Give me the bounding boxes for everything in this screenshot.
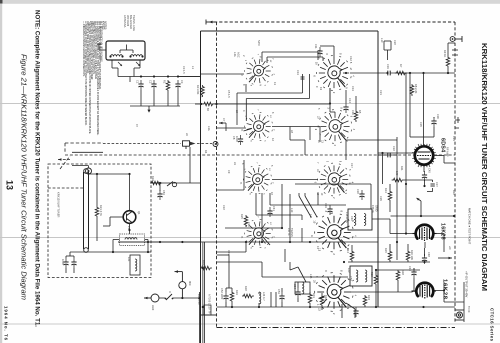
label halo around S2D [317, 108, 355, 143]
capacitor C55 [353, 307, 358, 317]
svg-text:AGC: AGC [237, 52, 241, 58]
wire stair bus lower [217, 193, 319, 252]
resistor R9 vertical at border [446, 56, 450, 68]
svg-text:KRK118/KRK120 VHF/UHF TUNER: KRK118/KRK120 VHF/UHF TUNER CIRCUIT SCHE… [480, 43, 489, 291]
svg-text:R33: R33 [235, 290, 239, 295]
coil L20b [365, 270, 367, 282]
resistor R31 [308, 293, 312, 305]
junction dots bottom bus [231, 306, 425, 308]
arrow into wafer [219, 122, 226, 131]
junction dots mid [245, 241, 311, 243]
wire TP bus [159, 297, 201, 299]
capacitor C8 [238, 135, 243, 145]
junction dot TP bus [181, 297, 183, 299]
label halo around S2B [315, 56, 355, 91]
chassis dashed border right [454, 22, 456, 322]
switch S2F wafer [314, 161, 353, 199]
wire stair bus upper [237, 52, 323, 125]
svg-text:C20: C20 [393, 40, 397, 45]
wire vertical rail 2 [409, 73, 411, 137]
wire oscillator link column [346, 137, 397, 260]
svg-text:MIX: MIX [188, 281, 192, 286]
wire osc wafer drop [262, 127, 320, 243]
svg-text:R34: R34 [367, 295, 371, 300]
wire osc grid leads [398, 268, 414, 292]
resistor R7 [395, 71, 407, 75]
resistor R19 [374, 274, 378, 286]
divider crossing ticks at border [455, 117, 460, 128]
wire C52 riser [217, 46, 335, 285]
wire T1 right leg down [134, 60, 140, 77]
corner mark [0, 0, 3, 4]
svg-text:C22: C22 [392, 146, 396, 151]
svg-text:+IF-OUTPUT 35-45V: +IF-OUTPUT 35-45V [465, 271, 469, 297]
UHF preselector cavity line [84, 169, 89, 253]
trimmer arrows under T1 [118, 62, 140, 66]
antenna jack arrow [58, 158, 70, 161]
svg-text:C1: C1 [136, 80, 140, 84]
wire interstage row S2B down [330, 88, 356, 112]
UHF oscillator transistor Q1 [123, 211, 136, 224]
svg-text:C13: C13 [296, 70, 300, 75]
wire Q1 base left [103, 217, 123, 226]
capacitor C3 [175, 80, 180, 90]
label halo around S2A [242, 55, 277, 86]
capacitor C11 [317, 47, 322, 57]
wire slant feeds into L18 [299, 193, 317, 217]
bus junction dots [140, 75, 179, 77]
resistor R21 [95, 206, 99, 218]
svg-text:1ST IF: 1ST IF [371, 205, 375, 213]
wire S2I tail [263, 237, 270, 245]
coil L24 [259, 292, 261, 304]
T1 primary coil right [131, 55, 143, 57]
page crease line 1 [0, 103, 500, 105]
capacitor C37 [431, 184, 435, 186]
junction dot osc drop [281, 227, 283, 229]
resistor R14 [350, 250, 354, 262]
coil L21 [135, 259, 137, 271]
switch S2I IF wafer [241, 216, 275, 249]
svg-text:L20: L20 [347, 268, 351, 273]
svg-text:L18 LINK: L18 LINK [345, 212, 349, 223]
svg-text:L10: L10 [380, 38, 384, 43]
coil L18a [354, 214, 356, 226]
wire osc section rows [217, 262, 421, 307]
svg-text:L24 4.7: L24 4.7 [262, 292, 266, 301]
svg-text:L4A: L4A [233, 52, 237, 57]
wire 6DS4 cathode down [391, 167, 456, 216]
switch S2D oscillator wafer [314, 107, 355, 146]
coil L20a [356, 270, 358, 282]
wire stabilizer leads [103, 223, 151, 252]
svg-text:R4: R4 [204, 150, 208, 154]
svg-text:6DS4: 6DS4 [440, 138, 446, 152]
B+ lead vertical pair [204, 242, 206, 343]
svg-text:R3 3.9K: R3 3.9K [196, 85, 200, 95]
capacitor C54 [295, 288, 300, 298]
capacitor C30 [359, 190, 364, 200]
svg-text:C53: C53 [277, 289, 281, 294]
svg-text:100: 100 [395, 171, 399, 176]
svg-text:C36: C36 [436, 114, 440, 119]
resistor R16 [406, 250, 410, 262]
wire heater row [424, 117, 435, 137]
small box L23 [295, 282, 310, 294]
wire T1 left leg down [112, 60, 118, 77]
junction dots lower-left [147, 241, 184, 243]
capacitor C63 [157, 190, 162, 200]
wire 6DS4 right to border [433, 156, 455, 164]
svg-text:R16 10K: R16 10K [410, 250, 414, 260]
wire interstage step row [237, 88, 330, 104]
capacitor C1 [138, 80, 143, 90]
UHF tuner dashed box [48, 164, 151, 278]
coil L18b [364, 214, 366, 226]
switch S2A RF input wafer [241, 54, 275, 87]
wire R13 leads [389, 184, 391, 212]
svg-text:L21: L21 [127, 257, 131, 262]
T1 stub left [97, 44, 106, 50]
svg-text:C48: C48 [427, 252, 431, 257]
svg-text:L3A: L3A [207, 126, 211, 131]
terminal bushing at box edge [213, 142, 218, 147]
VHF antenna jack J1 [72, 152, 103, 174]
capacitor C2 [151, 80, 156, 90]
capacitor C52 [223, 292, 228, 302]
svg-text:C24: C24 [227, 250, 231, 255]
svg-text:C21: C21 [379, 90, 383, 95]
capacitor C61 [63, 258, 68, 268]
svg-text:TRANS: TRANS [290, 228, 294, 237]
wire grid bias row [378, 154, 397, 156]
ground stub [147, 106, 150, 113]
wire exits below dash-dot [200, 292, 277, 343]
tick marks on right border top [452, 50, 458, 55]
svg-text:TO IF: TO IF [467, 306, 471, 313]
svg-text:C41: C41 [272, 206, 276, 211]
svg-text:C3 1.5: C3 1.5 [182, 66, 186, 74]
small box bottom left rail [204, 305, 211, 315]
tube pin tick ring V1 [412, 144, 435, 167]
contact arm C wafer [244, 129, 253, 132]
svg-text:R9 1K: R9 1K [443, 50, 447, 57]
T1 terminal dots [109, 55, 143, 57]
svg-text:C35: C35 [419, 122, 423, 127]
svg-text:R1: R1 [163, 80, 167, 84]
svg-text:C37: C37 [435, 182, 439, 187]
svg-text:C16: C16 [351, 110, 355, 115]
wire lower-left links [118, 241, 201, 243]
capacitor C19 [384, 71, 394, 76]
IF amp tube 16K28 V2 [413, 225, 437, 242]
wire osc tube plate right [435, 282, 465, 322]
resistor R8 on rail [410, 84, 414, 96]
chassis dashed border top [214, 21, 455, 23]
resistor R3 vertical [201, 85, 205, 97]
wire row into box left [195, 103, 237, 105]
VHF tuner solid box right [377, 31, 379, 307]
svg-text:C12: C12 [349, 56, 353, 61]
VHF tuner solid box top [201, 30, 379, 32]
IF cable connector [455, 310, 464, 320]
wire bottom bus [217, 306, 456, 308]
svg-text:C10: C10 [222, 205, 226, 210]
chassis dashed border left [216, 22, 218, 328]
junction dots scatter [96, 72, 445, 308]
switch S2G mixer grid wafer [310, 211, 357, 256]
switch S2H oscillator wafer [310, 270, 357, 315]
svg-text:NOTE: Complete Alignment Notes: NOTE: Complete Alignment Notes for the K… [34, 10, 41, 327]
wire slant feeds into L23 [290, 262, 306, 282]
svg-text:C14: C14 [348, 98, 352, 103]
junction dots bias row [420, 215, 455, 217]
svg-text:R5: R5 [358, 110, 362, 114]
svg-text:+IF: +IF [448, 246, 452, 250]
capacitor C33 [327, 205, 332, 215]
svg-text:1000: 1000 [235, 136, 239, 142]
resistor R25 [244, 215, 248, 227]
wire UHF top link [89, 174, 130, 241]
resistor R33 [230, 291, 234, 303]
svg-text:R15: R15 [384, 248, 388, 253]
VHF/UHF dashed divider line [65, 154, 455, 156]
coil inside L23 [302, 282, 304, 294]
resistor R13 [388, 190, 392, 202]
oscillator tube 16K28 V3 [412, 283, 437, 300]
scanner top edge strip [0, 0, 500, 4]
svg-text:C17: C17 [350, 163, 354, 168]
antenna feed dashed link [103, 143, 212, 145]
capacitor C13 [301, 77, 305, 79]
label halo around S2F [316, 162, 354, 195]
contact arm [167, 182, 177, 187]
wire L18 to 16K28 grid [372, 219, 414, 234]
wire 16K28 plate right [425, 234, 444, 253]
wire 6DS4 grid left [378, 153, 415, 184]
capacitor C45 [422, 171, 427, 181]
label column mid-left [204, 90, 456, 255]
tube pin ticks extra [418, 144, 430, 167]
svg-text:C50: C50 [349, 276, 353, 281]
svg-text:C29: C29 [379, 196, 383, 201]
svg-text:C33: C33 [324, 203, 328, 208]
T1 inner link [120, 45, 133, 54]
capacitor C36 [431, 117, 436, 127]
B+ rail gray [202, 242, 204, 343]
antenna bus wire [118, 76, 201, 78]
page crease line 2 [0, 237, 500, 239]
RF amp tube 6DS4 V1 [414, 144, 434, 167]
wire R9 leads [448, 43, 455, 73]
svg-text:C13: C13 [351, 86, 355, 91]
svg-text:R21 4.7K: R21 4.7K [99, 205, 103, 216]
capacitor C62 [71, 258, 76, 268]
svg-text:CTC16 Series: CTC16 Series [490, 308, 495, 342]
junction dots RF row [409, 72, 449, 74]
UHF output link wire to VHF box [151, 183, 201, 191]
VHF tuner solid box left [200, 31, 202, 343]
svg-text:NPO: NPO [257, 40, 261, 46]
resistor R32 [320, 295, 324, 307]
capacitor C53 [279, 292, 284, 302]
chassis dash-dot border bottom [217, 327, 456, 329]
wire osc slant [346, 303, 355, 318]
resistor R1 [166, 80, 170, 92]
svg-text:13: 13 [5, 180, 15, 190]
svg-text:KRK120 UHF TUNER: KRK120 UHF TUNER [57, 192, 61, 217]
page crease line 3 [0, 323, 500, 325]
svg-text:UHF: UHF [151, 305, 155, 311]
resistor R2b [203, 102, 215, 106]
antenna terminal dashed box [60, 143, 103, 169]
notes list block (rotated tiny text) [82, 21, 107, 136]
svg-text:R25: R25 [240, 214, 244, 219]
tube2 osc coil box [350, 266, 372, 286]
wire plug drop [189, 147, 191, 183]
svg-text:L16: L16 [309, 274, 313, 279]
capacitor C14 [343, 103, 348, 113]
wire C52 R33 top [226, 285, 232, 307]
wire RF bus row [178, 73, 455, 77]
resistor R10 [392, 178, 404, 182]
svg-text:C11: C11 [314, 44, 318, 49]
wire L18 feed vertical [370, 184, 372, 209]
svg-text:R11: R11 [400, 166, 404, 171]
switch S2E wafer [240, 162, 274, 195]
svg-text:C19: C19 [386, 64, 390, 69]
switch contact S1 [165, 292, 174, 301]
resistor R5 [354, 110, 358, 122]
svg-text:C30: C30 [356, 189, 360, 194]
svg-text:C7: C7 [222, 118, 226, 122]
svg-text:C9: C9 [227, 170, 231, 174]
switch S2B RF interstage wafer [312, 53, 354, 94]
svg-text:C49: C49 [408, 266, 412, 271]
mixer stabilizer dotted box [120, 234, 145, 246]
svg-text:R18: R18 [401, 270, 405, 275]
IF output arrow [438, 257, 452, 260]
svg-text:C63: C63 [162, 190, 166, 195]
switch S2C mixer wafer [241, 109, 275, 142]
coil shield box L18 [348, 209, 372, 230]
test point TP2 circle [144, 294, 159, 302]
svg-text:L13: L13 [290, 208, 294, 213]
svg-text:Figure 21—KRK118/KRK120 VHF/UH: Figure 21—KRK118/KRK120 VHF/UHF Tuner Ci… [20, 54, 29, 300]
svg-text:RF AMP: RF AMP [446, 147, 450, 157]
svg-text:R13: R13 [384, 188, 388, 193]
label halo around S2C [242, 110, 275, 141]
svg-text:R30: R30 [244, 286, 248, 291]
lower bus wire [130, 77, 180, 107]
svg-text:16K28: 16K28 [442, 279, 448, 300]
svg-text:C23: C23 [452, 136, 456, 141]
capacitor C48 [422, 254, 427, 264]
svg-text:R8 2.2K: R8 2.2K [414, 84, 418, 94]
stabilizer coil [125, 238, 137, 240]
svg-text:R31: R31 [312, 293, 316, 298]
svg-text:C52 1000: C52 1000 [220, 288, 224, 300]
test point TP1 circle [175, 270, 186, 298]
antenna plug P1 [183, 141, 196, 149]
T1 primary coil left [111, 55, 123, 57]
UHF box inner dashed partition [48, 187, 84, 189]
svg-text:C45: C45 [428, 168, 432, 173]
svg-text:Q1: Q1 [137, 211, 141, 215]
wire vertical B+ rail 1 [405, 73, 407, 226]
resistor R30 [242, 294, 254, 298]
small box L21 [130, 255, 140, 275]
wire VHF box bottom stub [201, 314, 217, 316]
antenna input plug at border [450, 36, 462, 42]
wire L14 box drop [284, 249, 286, 262]
wire 16K28 cathode bottom row [348, 244, 430, 262]
capacitor C49 [411, 268, 416, 278]
svg-text:C2: C2 [149, 80, 153, 84]
svg-text:— INDICATES CHASSIS GROUND CON: — INDICATES CHASSIS GROUND CONNECTION. [82, 21, 86, 77]
wire 6DS4 plate top [410, 73, 424, 147]
resistor R29 [200, 266, 212, 270]
label halo around S2E [241, 163, 274, 195]
svg-text:B+ 15.5V: B+ 15.5V [197, 294, 201, 305]
svg-text:R12: R12 [452, 190, 456, 195]
wire S2A tail to S2C [245, 84, 247, 92]
border entry arrow [206, 20, 214, 25]
svg-text:GRID: GRID [375, 205, 379, 212]
wire S2C row [217, 127, 321, 141]
wire osc bottom links [259, 282, 342, 318]
wire mid link rows [118, 180, 378, 243]
capacitor C28 [384, 153, 394, 158]
resistor R15 [388, 250, 392, 262]
svg-text:R32: R32 [324, 295, 328, 300]
svg-text:C3: C3 [180, 80, 184, 84]
label halo around S2H [315, 276, 353, 306]
coil L10 with capacitor C20 [384, 41, 391, 60]
resistor R34 [363, 295, 367, 307]
svg-text:C40: C40 [350, 216, 354, 221]
capacitor C41 [267, 207, 272, 217]
arrow test point up [417, 198, 422, 201]
svg-text:R7: R7 [399, 64, 403, 68]
svg-text:R14: R14 [346, 248, 350, 253]
svg-text:MATCH ONE ● TEST POINT: MATCH ONE ● TEST POINT [468, 208, 472, 244]
antenna matching transformer T1 box [106, 41, 145, 60]
svg-text:C5 1.5: C5 1.5 [227, 90, 231, 98]
svg-text:R22: R22 [151, 176, 155, 181]
label halo around S2G [315, 216, 354, 249]
svg-text:TRANS. LINE: TRANS. LINE [132, 15, 136, 31]
svg-text:1964 No. T6: 1964 No. T6 [4, 306, 9, 341]
resistor R18 [396, 270, 400, 282]
svg-text:16K28: 16K28 [440, 223, 446, 240]
svg-text:1000: 1000 [61, 259, 65, 265]
wire UHF bottom caps [66, 252, 103, 273]
resistor R22 [150, 181, 162, 185]
scanner left edge strip [0, 0, 2, 343]
junction dot stabilizer [128, 229, 130, 231]
